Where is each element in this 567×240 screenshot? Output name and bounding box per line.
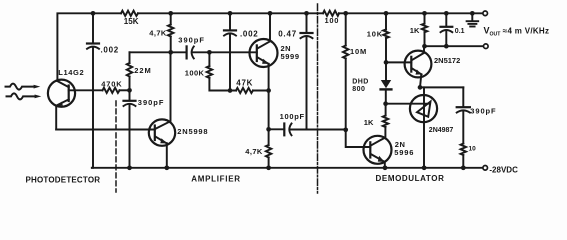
wire .002 second upper lead (229, 13, 231, 30)
transistor 2N5172 base bar (410, 57, 412, 72)
svg-text:100pF: 100pF (280, 112, 305, 121)
svg-text:0.47: 0.47 (278, 29, 297, 38)
resistor 47K (236, 88, 253, 93)
wire 0.47 upper lead (306, 13, 308, 32)
phototransistor L14G2 body (48, 80, 75, 107)
wire 390pF third lower lead to 10 ohm (462, 111, 464, 143)
transistor 2N5998 base bar (154, 126, 156, 141)
wire 100pF right lead to demodulator node (290, 129, 345, 131)
svg-text:DEMODULATOR: DEMODULATOR (376, 174, 445, 183)
svg-text:0.1: 0.1 (455, 28, 465, 35)
wire 10M lower lead down to 100pF node (345, 59, 347, 130)
resistor 4.7K (168, 25, 173, 37)
junction emitter line / 100pF (266, 127, 271, 132)
junction top rail / .002 bypass line (91, 11, 96, 16)
wire L14G2 emitter down (55, 106, 57, 130)
resistor 1K (first, collector load of 2N5172) (422, 24, 427, 33)
transistor 2N5999 base bar (256, 45, 258, 61)
transistor 2N5999 collector diagonal and lead to rail (257, 13, 270, 48)
wire 4.7K upper lead (170, 13, 172, 24)
capacitor 100pF plates (283, 124, 285, 136)
junction .002 second / 47K line (228, 88, 233, 93)
wire 100K lower lead and 47K line corner (209, 78, 236, 91)
junction 4.7K second / bottom rail (266, 165, 271, 170)
2N4987 triangle (417, 102, 431, 117)
resistor 1K (second, collector load of 2N5996) (383, 116, 388, 128)
transistor 2N5172 collector diagonal (412, 46, 424, 60)
diode DHD800 triangle (381, 80, 391, 88)
wire 10M upper lead (345, 13, 347, 45)
junction top rail / 2N5999 collector (268, 11, 273, 16)
wire 4.7K second lower lead (268, 158, 270, 168)
wire 1K to diode node (385, 104, 387, 116)
wire top rail middle segment (138, 12, 323, 14)
junction 1K / 2N5172 collector / output line (422, 44, 427, 49)
transistor 2N5996 emitter diagonal with arrow (371, 154, 385, 162)
wire 2N5172 emitter node to 390pF third (420, 86, 463, 88)
svg-text:PHOTODETECTOR: PHOTODETECTOR (26, 175, 101, 184)
wire 390pF to 2N5999 base (193, 51, 257, 53)
junction 10 / bottom rail (461, 165, 466, 170)
capacitor 0.1 plates (441, 26, 453, 28)
terminal VOUT lower (open circle) (484, 44, 489, 49)
wire 47K to 2N5999 emitter (253, 90, 269, 92)
wire .002 second lower lead (229, 34, 231, 90)
junction 2N5998 emitter / bottom rail (164, 165, 169, 170)
svg-text:4,7K: 4,7K (149, 29, 167, 38)
resistor 100K (207, 66, 212, 78)
svg-text:22M: 22M (134, 66, 151, 75)
svg-text:10M: 10M (350, 47, 367, 56)
resistor 22M (127, 63, 132, 76)
junction diode / 1K / SUS gate (383, 101, 388, 106)
ground symbol stub (471, 13, 473, 20)
transistor 2N5999 emitter diagonal with arrow (257, 57, 268, 64)
wire L14G2 base lead (69, 89, 103, 91)
resistor 4.7K (second) (266, 145, 271, 158)
wire 390pF third upper lead (462, 87, 464, 106)
svg-text:100K: 100K (185, 69, 205, 78)
svg-text:800: 800 (352, 86, 365, 93)
terminal -28VDC (open circle) (483, 166, 488, 171)
light arrow 1 (6, 84, 34, 90)
junction top rail / .002 second (228, 11, 233, 16)
capacitor 0.47 plates (301, 32, 313, 34)
wire diode cathode lead down to 1K (385, 89, 387, 103)
junction N1 / 4.7K / 2N5998 collector (168, 50, 173, 55)
wire node down and right to 2N5996 base (346, 130, 371, 147)
svg-text:390pF: 390pF (178, 35, 205, 44)
junction top rail / 0.1 (444, 11, 449, 16)
2N4987 anode/cathode vertical wire through body down to bottom rail (423, 87, 425, 167)
transistor 2N5996 collector diagonal (371, 127, 386, 146)
svg-text:5996: 5996 (394, 148, 414, 157)
transistor 2N5999 body (250, 39, 278, 67)
capacitor .002 (first) plates (87, 42, 99, 44)
svg-text:.002: .002 (240, 29, 258, 38)
junction 2N4987 cathode / bottom rail (422, 165, 427, 170)
resistor 15K (in top rail) (121, 11, 138, 16)
junction 0.1 / output line (444, 44, 449, 49)
wire 100pF left lead (269, 128, 285, 130)
wire 10 lower lead (462, 155, 464, 168)
wire 10K upper lead (385, 13, 387, 29)
resistor 100 (in top rail) (323, 11, 339, 16)
wire 2N5172 base lead (386, 61, 411, 63)
wire bottom supply rail (92, 167, 483, 169)
wire 2N5996 emitter to bottom rail (384, 162, 386, 168)
wire 0.1 upper lead (445, 13, 447, 26)
svg-text:47K: 47K (236, 78, 253, 87)
svg-text:390pF: 390pF (470, 106, 496, 115)
wire top supply rail left segment with corner down to phototransistor collector (57, 13, 121, 81)
transistor 2N5996 body (364, 136, 392, 164)
wire 0.47 lower lead down to 100pF line (306, 37, 308, 130)
transistor 2N5172 body (405, 51, 432, 78)
junction top rail / 0.47 (304, 11, 309, 16)
capacitor .002 (second) plates (224, 29, 236, 31)
svg-text:VOUT: VOUT (484, 26, 502, 38)
wire 100K upper lead (208, 52, 210, 66)
svg-text:1K: 1K (364, 118, 374, 127)
wire 22M lower lead (129, 77, 131, 91)
phototransistor L14G2 emitter diagonal with arrow (56, 99, 68, 105)
svg-text:2N5998: 2N5998 (177, 127, 208, 136)
wire output line to lower terminal (425, 45, 484, 47)
wire SUS gate line (386, 103, 430, 105)
wire top rail right segment to output terminal (339, 12, 483, 14)
svg-text:.002: .002 (101, 45, 119, 54)
wire 0.1 lower lead (445, 31, 447, 46)
resistor 470K (103, 88, 120, 93)
ground symbol bars (467, 20, 479, 22)
phototransistor L14G2 base bar (68, 86, 70, 102)
phototransistor L14G2 collector diagonal (57, 81, 68, 87)
wire 2N5998 emitter to bottom rail (166, 143, 168, 168)
diode DHD800 cathode bar (381, 88, 392, 90)
wire 10K lower lead (385, 38, 387, 62)
wire 470K to node A (120, 89, 130, 91)
wire 390pF lower lead down across base line to bottom rail (129, 105, 131, 168)
transistor 2N5998 emitter diagonal with arrow (155, 136, 167, 143)
svg-text:390pF: 390pF (138, 98, 165, 107)
wire 1K first upper lead (424, 13, 426, 23)
svg-text:2N4987: 2N4987 (429, 127, 454, 134)
wire .002 bypass vertical upper lead (92, 13, 94, 43)
svg-text:AMPLIFIER: AMPLIFIER (191, 175, 240, 184)
wire 4.7K lower lead to N1 and down to 2N5998 collector (155, 37, 170, 129)
svg-text:1K: 1K (410, 26, 420, 35)
junction 2N5999 emitter / 47K line (266, 88, 271, 93)
junction top rail / 10M (343, 11, 348, 16)
wire emitter/base horizontal line y=129.5 (56, 129, 154, 131)
wire 2N5172 emitter down to SUS node (420, 74, 421, 87)
junction 100K top (207, 50, 212, 55)
capacitor 390pF (third) plates (457, 106, 470, 108)
wire N1 node horizontal line y=52.3 (130, 51, 186, 53)
capacitor 390pF (first, horizontal) plates (186, 46, 188, 58)
wire emitter line down to 100pF node (268, 91, 270, 130)
transistor 2N5996 base bar (369, 142, 371, 157)
wire .002 bypass vertical lower lead down to bottom rail (92, 47, 93, 167)
resistor 10K (383, 30, 388, 39)
terminal VOUT upper (open circle) (483, 11, 488, 16)
svg-text:470K: 470K (101, 79, 122, 88)
svg-text:15K: 15K (124, 17, 139, 26)
junction 10K / diode / 2N5172 base (384, 60, 389, 65)
capacitor 390pF (second, vertical) plates (124, 100, 136, 102)
resistor 10M (343, 46, 348, 59)
junction top rail / ground stub (470, 11, 475, 16)
svg-text:4,7K: 4,7K (245, 147, 263, 156)
svg-text:2N5172: 2N5172 (434, 56, 460, 65)
svg-text:L14G2: L14G2 (58, 68, 84, 77)
svg-text:10: 10 (469, 145, 477, 152)
junction top rail / 10K (384, 11, 389, 16)
junction 390pF drop / bottom rail (127, 165, 132, 170)
light arrow 2 (7, 93, 35, 99)
junction top rail / 1K (422, 11, 427, 16)
silicon unilateral switch 2N4987 body (410, 95, 437, 122)
svg-text:100: 100 (325, 16, 340, 25)
wire 1K first lower lead to output node (424, 32, 426, 46)
junction 2N5996 emitter / bottom rail (383, 165, 388, 170)
wire 22M upper lead from N1 line (129, 52, 131, 63)
wire down to 4.7K second (268, 129, 270, 145)
transistor 2N5172 emitter diagonal with arrow (412, 68, 422, 74)
transistor 2N5998 body (149, 119, 175, 145)
wire 2N5999 emitter down to 47K line (268, 64, 270, 91)
svg-text:10K: 10K (367, 29, 383, 38)
junction 10M / 100pF line / 2N5996 base (343, 127, 348, 132)
svg-text:DHD: DHD (352, 79, 369, 86)
junction top rail / 4.7K (168, 11, 173, 16)
junction 2N5172 emitter node (418, 85, 423, 90)
svg-text:≈4 m V/KHz: ≈4 m V/KHz (503, 27, 550, 36)
junction node A (470K / 22M / 390pF) (127, 88, 132, 93)
wire node A down to 390pF cap (129, 90, 131, 100)
section divider amplifier/demodulator (dash-dot) (317, 4, 319, 193)
wire diode anode lead up to 10K node (385, 62, 387, 80)
section divider photodetector/amplifier (dashed) (115, 101, 117, 192)
resistor 10 (461, 144, 466, 156)
svg-text:-28VDC: -28VDC (489, 166, 518, 175)
svg-text:5999: 5999 (281, 52, 300, 61)
